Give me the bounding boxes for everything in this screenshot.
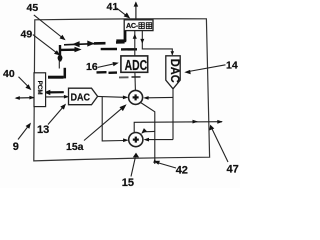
wire: output of AC-link to top edge with up arrow <box>134 1 139 19</box>
svg-text:14: 14 <box>226 60 238 72</box>
DAC 13 (horizontal pentagon box) <box>69 88 98 105</box>
svg-text:47: 47 <box>227 164 239 176</box>
svg-text:42: 42 <box>176 164 188 176</box>
wire: node 15a output diagonal down to vertical net <box>141 103 155 165</box>
wire: DAC13 output to summing node 15a <box>98 96 129 100</box>
DAC 14 (vertical pentagon box) <box>166 56 180 89</box>
svg-text:49: 49 <box>21 29 33 41</box>
bidirectional arrow out of left border at PWM <box>15 96 35 100</box>
svg-text:AC-: AC- <box>126 21 139 30</box>
bold arrowhead left on row A <box>72 41 79 47</box>
svg-text:45: 45 <box>27 2 39 14</box>
ADC box 16 <box>121 56 148 74</box>
wire: ADC down to summing node 15a <box>134 72 137 90</box>
bold bus vertical dash near PWM <box>64 68 67 79</box>
bold dashed bus row A <box>64 42 125 45</box>
wire: branch into summing node 15 upper right <box>141 128 155 134</box>
svg-text:DAC: DAC <box>71 91 91 103</box>
wire: AC-link right pin down and to DAC 14 top with down arrows <box>140 31 174 56</box>
bold arrowhead right on row A <box>87 41 94 47</box>
PWM modulator box 40 <box>34 73 46 107</box>
label 13 <box>37 104 66 136</box>
wire: ADC up to AC-link with up arrow <box>133 31 137 56</box>
label 49 <box>21 29 61 56</box>
svg-text:41: 41 <box>107 1 119 13</box>
bold arrow into PWM right edge <box>44 90 64 95</box>
label 15 <box>122 153 139 189</box>
svg-text:15: 15 <box>122 177 134 188</box>
wire: DAC14 output down to nodes <box>172 89 174 140</box>
bold bus horizontal into PWM top right <box>48 76 64 79</box>
summing node 15a <box>129 90 143 104</box>
bold arrowhead right on row B <box>75 47 82 53</box>
wire: PWM to DAC 13 <box>46 95 70 99</box>
wire: branch down from DAC13 output to summing node 15 <box>102 97 128 142</box>
label 42 <box>154 161 188 177</box>
AC-link box 41 <box>124 20 153 31</box>
outer enclosure border <box>34 19 210 161</box>
svg-text:PCM: PCM <box>36 81 43 95</box>
label 15a <box>66 104 127 153</box>
svg-text:40: 40 <box>3 68 15 80</box>
svg-text:9: 9 <box>13 141 19 153</box>
label 47 <box>209 125 239 176</box>
label 14 <box>184 60 238 75</box>
svg-text:ADC: ADC <box>125 58 148 74</box>
svg-text:13: 13 <box>37 124 49 136</box>
bold dashes row C under ADC <box>97 71 118 74</box>
wire: summing node 15 output up then right crossing border (output 47) <box>134 120 223 133</box>
label 45 <box>27 2 66 40</box>
label 16 <box>86 61 119 73</box>
svg-text:16: 16 <box>86 61 98 73</box>
bold dashed bus row B <box>60 48 137 51</box>
svg-text:15a: 15a <box>66 141 84 153</box>
label 9 <box>13 123 31 153</box>
wire: into summing node 15 from right (from DAC14 drop) <box>144 138 174 142</box>
bold dashed AC-bus elbow at AC-link bottom left <box>116 31 126 41</box>
label 41 <box>107 1 131 19</box>
up arrow on 42 input at bottom border crossing <box>153 159 156 163</box>
wire: into summing node 15a from right <box>143 96 173 100</box>
label 40 <box>3 68 31 90</box>
summing node 15 <box>129 133 143 147</box>
svg-text:DAC: DAC <box>168 59 180 83</box>
bold bus vertical drop at x60 with junction blob <box>58 45 63 69</box>
